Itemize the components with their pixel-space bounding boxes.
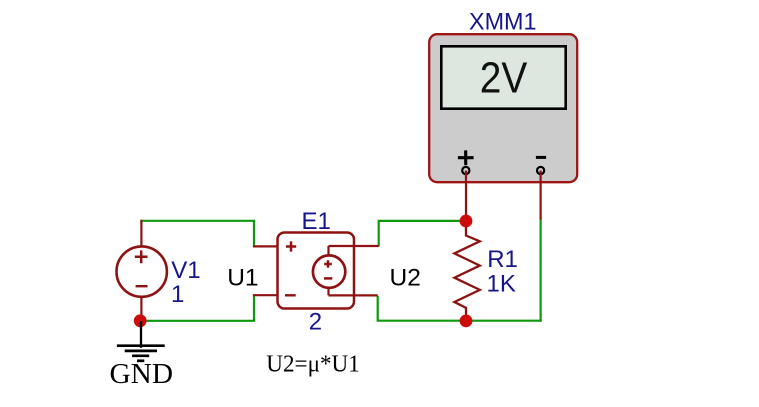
- svg-text:1K: 1K: [487, 271, 516, 298]
- svg-text:2V: 2V: [480, 55, 528, 103]
- svg-text:2: 2: [309, 308, 322, 335]
- svg-text:U2: U2: [390, 264, 421, 291]
- svg-text:V1: V1: [171, 257, 200, 284]
- svg-text:U2=μ*U1: U2=μ*U1: [266, 351, 360, 378]
- svg-text:E1: E1: [302, 208, 331, 235]
- svg-text:XMM1: XMM1: [469, 8, 537, 35]
- svg-text:GND: GND: [110, 359, 174, 390]
- svg-text:U1: U1: [227, 264, 258, 291]
- svg-text:1: 1: [171, 281, 184, 308]
- svg-text:R1: R1: [487, 246, 518, 273]
